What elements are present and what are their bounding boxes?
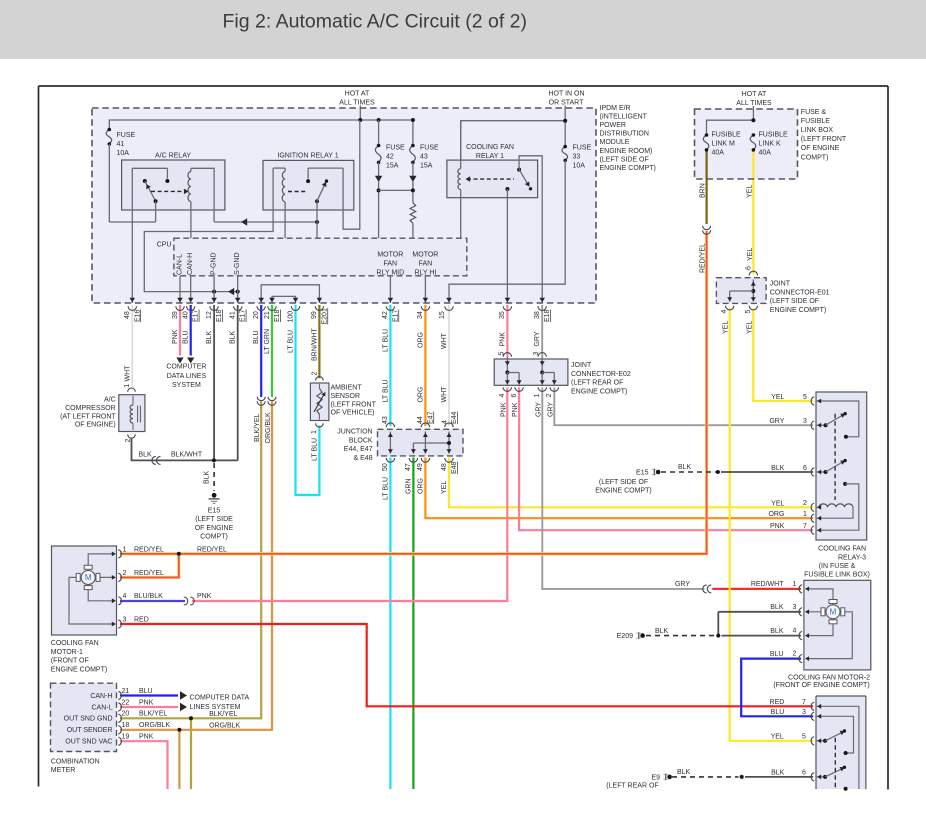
svg-text:E201: E201 [321,308,328,324]
svg-text:ALL TIMES: ALL TIMES [339,100,375,107]
svg-text:FUSIBLE LINK BOX): FUSIBLE LINK BOX) [804,572,870,579]
svg-text:MOTOR: MOTOR [412,252,438,259]
svg-text:22: 22 [122,699,130,706]
svg-text:42: 42 [382,311,389,319]
svg-text:RED/WHT: RED/WHT [751,581,784,588]
svg-text:M: M [830,608,837,617]
svg-text:YEL: YEL [723,321,730,334]
svg-text:1: 1 [124,384,131,388]
svg-text:E47: E47 [427,411,434,424]
svg-text:43: 43 [420,154,428,161]
svg-text:BLOCK: BLOCK [349,437,373,444]
svg-text:39: 39 [172,311,179,319]
svg-text:6: 6 [745,266,752,270]
svg-text:E15: E15 [208,508,221,515]
svg-text:COMPUTER DATA: COMPUTER DATA [190,695,250,702]
svg-text:4: 4 [123,593,127,600]
svg-text:(LEFT FRONT: (LEFT FRONT [801,136,847,143]
svg-text:GRN: GRN [405,478,412,494]
svg-text:AMBIENT: AMBIENT [331,385,363,392]
svg-text:41: 41 [230,311,237,319]
svg-text:RELAY-3: RELAY-3 [838,554,866,561]
svg-text:49: 49 [417,463,424,471]
svg-text:ALL TIMES: ALL TIMES [736,100,772,107]
svg-text:E44, E47: E44, E47 [344,446,373,453]
svg-text:GRY: GRY [534,331,541,346]
svg-text:44: 44 [417,416,424,424]
svg-text:MOTOR-1: MOTOR-1 [51,649,83,656]
svg-text:ORG/BLK: ORG/BLK [139,722,170,729]
svg-text:(LEFT REAR OF: (LEFT REAR OF [571,380,623,387]
svg-text:5: 5 [802,733,806,740]
svg-text:JOINT: JOINT [571,362,592,369]
svg-text:WHT: WHT [441,386,448,403]
svg-text:RED/YEL: RED/YEL [134,546,164,553]
svg-text:E17: E17 [193,309,200,322]
svg-text:HOT AT: HOT AT [742,91,767,98]
svg-text:JOINT: JOINT [770,280,791,287]
svg-text:2: 2 [125,439,132,443]
svg-text:Fig 2: Automatic A/C Circuit (: Fig 2: Automatic A/C Circuit (2 of 2) [223,11,528,33]
svg-text:ENGINE COMPT): ENGINE COMPT) [571,388,627,395]
svg-text:PNK: PNK [197,593,212,600]
svg-text:E18: E18 [274,309,281,322]
svg-text:YEL: YEL [747,185,754,198]
svg-text:PNK: PNK [139,699,154,706]
svg-text:MOTOR: MOTOR [377,252,403,259]
svg-text:15A: 15A [420,163,433,170]
svg-text:YEL: YEL [747,321,754,334]
svg-text:PNK: PNK [499,332,506,347]
svg-text:40A: 40A [759,150,772,157]
svg-text:48: 48 [124,311,131,319]
svg-text:E18: E18 [544,309,551,322]
svg-text:ORG: ORG [768,511,784,518]
svg-text:35: 35 [499,311,506,319]
svg-text:(IN FUSE &: (IN FUSE & [819,563,856,570]
svg-text:E16: E16 [134,309,141,322]
svg-text:ENGINE COMPT): ENGINE COMPT) [770,307,826,314]
svg-text:10A: 10A [573,163,586,170]
svg-text:BLK: BLK [677,769,691,776]
svg-text:RED/YEL: RED/YEL [134,570,164,577]
svg-text:(LEFT SIDE OF: (LEFT SIDE OF [599,479,648,486]
svg-text:BLK/YEL: BLK/YEL [209,711,238,718]
svg-text:GRY: GRY [535,402,542,417]
svg-text:PNK: PNK [770,523,785,530]
svg-text:BRN: BRN [700,183,707,198]
svg-text:GRY: GRY [769,418,784,425]
svg-text:CPU: CPU [157,242,172,249]
svg-text:SYSTEM: SYSTEM [172,382,201,389]
svg-text:4: 4 [442,420,449,424]
svg-text:1: 1 [123,546,127,553]
svg-text:OF ENGINE: OF ENGINE [195,525,234,532]
svg-text:CAN-L: CAN-L [91,704,112,711]
svg-text:LT BLU: LT BLU [288,330,295,353]
svg-text:2: 2 [803,500,807,507]
svg-text:LT BLU: LT BLU [382,379,389,402]
svg-text:BLK: BLK [139,452,153,459]
svg-text:OUT SND VAC: OUT SND VAC [65,739,112,746]
svg-text:COMPUTER: COMPUTER [166,364,206,371]
svg-text:FUSIBLE: FUSIBLE [801,118,831,125]
svg-text:GRY: GRY [675,581,690,588]
svg-text:7: 7 [802,699,806,706]
svg-text:PNK: PNK [172,329,179,344]
svg-text:BLK/WHT: BLK/WHT [171,452,203,459]
svg-text:BLK: BLK [771,770,785,777]
svg-text:LT BLU: LT BLU [382,329,389,352]
svg-text:99: 99 [311,311,318,319]
svg-text:(INTELLIGENT: (INTELLIGENT [600,114,648,121]
svg-text:42: 42 [386,154,394,161]
svg-text:BLK: BLK [770,604,784,611]
svg-text:FUSIBLE: FUSIBLE [759,132,789,139]
svg-text:BLU/BLK: BLU/BLK [134,593,163,600]
svg-text:COMBINATION: COMBINATION [51,758,100,765]
svg-text:1: 1 [803,511,807,518]
svg-text:21: 21 [122,688,130,695]
svg-text:3: 3 [802,709,806,716]
svg-text:FAN: FAN [383,261,397,268]
svg-text:(LEFT FRONT: (LEFT FRONT [331,401,377,408]
svg-text:ORG/BLK: ORG/BLK [209,722,240,729]
svg-text:YEL: YEL [771,734,784,741]
svg-text:12: 12 [206,311,213,319]
svg-text:(AT LEFT FRONT: (AT LEFT FRONT [60,413,116,420]
svg-text:50: 50 [382,463,389,471]
svg-text:BLU: BLU [770,651,784,658]
svg-text:BLK: BLK [206,330,213,344]
svg-text:OF ENGINE: OF ENGINE [801,145,840,152]
svg-text:RELAY 1: RELAY 1 [476,153,504,160]
svg-text:15: 15 [439,311,446,319]
svg-text:BLK: BLK [771,465,785,472]
svg-text:BLK: BLK [770,628,784,635]
svg-text:OF VEHICLE): OF VEHICLE) [331,410,375,417]
svg-text:RED/YEL: RED/YEL [700,243,707,273]
svg-text:(LEFT REAR OF: (LEFT REAR OF [606,783,658,790]
svg-text:(FRONT OF: (FRONT OF [51,658,89,665]
svg-text:FUSE: FUSE [420,145,439,152]
svg-text:YEL: YEL [771,500,784,507]
svg-text:BLU: BLU [183,330,190,344]
svg-text:OUT SND GND: OUT SND GND [64,716,113,723]
svg-text:FUSE: FUSE [386,145,405,152]
svg-text:7: 7 [803,523,807,530]
svg-text:2: 2 [546,394,553,398]
svg-text:38: 38 [534,311,541,319]
svg-text:DISTRIBUTION: DISTRIBUTION [600,131,649,138]
svg-text:BLU: BLU [139,688,153,695]
svg-text:20: 20 [122,711,130,718]
svg-text:BLK: BLK [655,628,669,635]
svg-text:BLK/YEL: BLK/YEL [254,413,261,442]
svg-text:E17: E17 [240,309,247,322]
svg-text:1: 1 [534,394,541,398]
svg-text:4: 4 [793,628,797,635]
svg-text:FUSE &: FUSE & [801,109,827,116]
svg-text:6: 6 [802,770,806,777]
svg-text:CAN-H: CAN-H [90,693,112,700]
svg-text:CONNECTOR-E02: CONNECTOR-E02 [571,371,631,378]
svg-text:COOLING FAN MOTOR-2: COOLING FAN MOTOR-2 [788,674,870,681]
svg-text:48: 48 [441,463,448,471]
svg-text:BLU: BLU [771,709,785,716]
svg-text:PNK: PNK [512,402,519,417]
svg-text:CAN-H: CAN-H [187,253,194,275]
svg-text:(LEFT SIDE OF: (LEFT SIDE OF [600,156,649,163]
svg-text:E9: E9 [651,774,660,781]
svg-text:(LEFT SIDE OF: (LEFT SIDE OF [770,298,819,305]
svg-text:SENSOR: SENSOR [331,393,361,400]
svg-text:P-GND: P-GND [211,252,218,275]
svg-text:PNK: PNK [139,734,154,741]
svg-text:M: M [85,573,92,582]
svg-text:LINK K: LINK K [759,141,782,148]
svg-text:LINES SYSTEM: LINES SYSTEM [190,704,241,711]
svg-text:ORG/BLK: ORG/BLK [265,412,272,443]
svg-text:LT BLU: LT BLU [312,438,319,461]
svg-text:YEL: YEL [747,248,754,261]
svg-text:ENGINE COMPT): ENGINE COMPT) [51,666,107,673]
svg-text:21: 21 [264,311,271,319]
svg-text:2: 2 [311,372,318,376]
svg-text:JUNCTION: JUNCTION [337,429,372,436]
svg-text:DATA LINES: DATA LINES [167,373,207,380]
svg-text:(LEFT SIDE: (LEFT SIDE [195,516,233,523]
svg-text:WHT: WHT [125,365,132,382]
svg-text:4: 4 [499,394,506,398]
svg-text:5: 5 [745,310,752,314]
svg-text:OR START: OR START [549,100,584,107]
svg-text:2: 2 [123,570,127,577]
svg-text:6: 6 [511,394,518,398]
svg-text:COOLING FAN: COOLING FAN [466,144,514,151]
svg-text:1: 1 [793,581,797,588]
svg-text:3: 3 [123,616,127,623]
svg-text:BRN/WHT: BRN/WHT [311,328,318,361]
svg-text:LINK M: LINK M [712,141,736,148]
svg-text:BLK: BLK [204,470,211,484]
svg-text:34: 34 [417,311,424,319]
svg-text:IGNITION RELAY 1: IGNITION RELAY 1 [277,153,338,160]
svg-text:RED: RED [134,616,149,623]
svg-text:GRY: GRY [547,402,554,417]
svg-text:LT GRN: LT GRN [264,329,271,354]
svg-text:METER: METER [51,767,76,774]
svg-text:5: 5 [803,394,807,401]
svg-text:A/C RELAY: A/C RELAY [155,153,191,160]
svg-text:BLK/YEL: BLK/YEL [139,711,168,718]
svg-text:ENGINE COMPT): ENGINE COMPT) [595,488,651,495]
svg-text:IPDM E/R: IPDM E/R [600,105,631,112]
svg-text:ORG: ORG [417,478,424,494]
svg-text:2: 2 [793,651,797,658]
svg-text:40A: 40A [712,150,725,157]
svg-text:15A: 15A [386,163,399,170]
svg-text:CAN-L: CAN-L [177,254,184,275]
svg-text:A/C: A/C [104,397,116,404]
svg-text:100: 100 [287,311,294,323]
svg-text:41: 41 [117,141,125,148]
svg-text:(FRONT OF ENGINE COMPT): (FRONT OF ENGINE COMPT) [773,682,869,689]
svg-text:19: 19 [122,734,130,741]
svg-text:PNK: PNK [500,402,507,417]
svg-text:COMPT): COMPT) [801,154,829,161]
svg-text:WHT: WHT [441,332,448,349]
svg-text:COMPT): COMPT) [200,534,228,541]
svg-text:RLY MID: RLY MID [376,270,404,277]
svg-text:RLY HI: RLY HI [414,270,436,277]
svg-text:COOLING FAN: COOLING FAN [818,546,866,553]
svg-text:E44: E44 [451,411,458,424]
svg-text:COMPRESSOR: COMPRESSOR [65,405,116,412]
svg-text:OUT SENDER: OUT SENDER [67,727,113,734]
svg-text:FAN: FAN [419,261,433,268]
svg-text:10A: 10A [117,150,130,157]
svg-text:3: 3 [793,604,797,611]
svg-text:20: 20 [253,311,260,319]
svg-text:E209: E209 [617,633,633,640]
svg-text:BLU: BLU [253,330,260,344]
svg-text:43: 43 [382,416,389,424]
svg-text:CONNECTOR-E01: CONNECTOR-E01 [770,289,830,296]
svg-text:ORG: ORG [417,387,424,403]
svg-text:YEL: YEL [441,481,448,494]
svg-text:4: 4 [721,310,728,314]
svg-text:E18: E18 [216,309,223,322]
svg-text:& E48: & E48 [354,455,373,462]
svg-text:LINK BOX: LINK BOX [801,127,834,134]
svg-text:RED: RED [770,699,785,706]
svg-text:MODULE: MODULE [600,139,630,146]
svg-text:ORG: ORG [417,332,424,348]
svg-text:40: 40 [183,311,190,319]
svg-text:3: 3 [803,418,807,425]
svg-text:BLK: BLK [230,330,237,344]
svg-text:FUSE: FUSE [573,145,592,152]
svg-text:COOLING FAN: COOLING FAN [51,640,99,647]
svg-text:OF ENGINE): OF ENGINE) [75,422,116,429]
svg-text:LT BLU: LT BLU [382,477,389,500]
svg-text:33: 33 [573,154,581,161]
svg-text:6: 6 [803,465,807,472]
svg-text:YEL: YEL [771,394,784,401]
svg-text:18: 18 [122,722,130,729]
svg-text:ENGINE COMPT): ENGINE COMPT) [600,165,656,172]
svg-text:POWER: POWER [600,122,626,129]
svg-text:1: 1 [311,430,318,434]
svg-text:E15: E15 [636,469,649,476]
svg-text:BLK: BLK [678,464,692,471]
svg-text:E17: E17 [392,309,399,322]
svg-text:HOT AT: HOT AT [345,91,370,98]
svg-text:E48: E48 [451,461,458,474]
svg-text:FUSE: FUSE [117,132,136,139]
svg-text:47: 47 [405,463,412,471]
svg-text:FUSIBLE: FUSIBLE [712,132,742,139]
svg-text:RED/YEL: RED/YEL [197,546,227,553]
svg-text:ENGINE ROOM): ENGINE ROOM) [600,148,653,155]
svg-text:HOT IN ON: HOT IN ON [548,91,584,98]
svg-text:S-GND: S-GND [234,252,241,275]
